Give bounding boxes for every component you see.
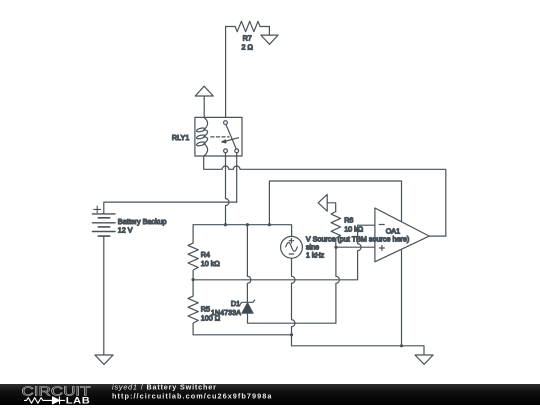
svg-text:RLY1: RLY1 [172, 133, 189, 142]
svg-text:R7: R7 [243, 34, 252, 43]
svg-text:R6: R6 [344, 216, 353, 225]
svg-text:isyed1 / Battery Switcher: isyed1 / Battery Switcher [112, 383, 217, 392]
wire plus input from R6 bottom junction [336, 246, 375, 248]
svg-text:1 kHz: 1 kHz [306, 250, 325, 259]
svg-text:R5: R5 [201, 305, 210, 314]
resistor R6 [331, 212, 364, 248]
op-amp OA1 [375, 208, 446, 262]
svg-text:10 kΩ: 10 kΩ [201, 259, 221, 268]
wire D1 anode to plus-input node [248, 247, 340, 323]
net flag at R6 top [318, 194, 336, 211]
relay RLY1 [172, 117, 242, 156]
wire top-left from R7 down to relay common [225, 27, 227, 121]
junction: riser meets ground rail [400, 344, 403, 347]
wire relay coil to op-amp output (top long wire) [204, 156, 446, 236]
junction: ground-rail riser on ground bus [268, 223, 271, 226]
ground at battery [95, 355, 113, 364]
junction: relay contact wire on ground bus [224, 223, 227, 226]
svg-text:1N4733A: 1N4733A [211, 308, 241, 317]
wire from bus up over to right and down to ground rail [269, 181, 401, 346]
footer title text [112, 383, 272, 401]
voltage source V1 sine [281, 236, 303, 258]
svg-text:2 Ω: 2 Ω [242, 43, 254, 52]
wire relay left contact down to ground bus [226, 153, 230, 225]
wire minus input: from op-amp minus down and left to R4/R5 junction [193, 225, 375, 280]
wire battery plus to relay contact [104, 202, 237, 214]
junction: R5 wire meets source minus lead [290, 333, 293, 336]
ground rail bottom right [292, 346, 425, 355]
wire battery minus down [103, 236, 105, 355]
battery Battery Backup 12V [92, 206, 166, 236]
wire source minus lead down to ground rail [292, 258, 296, 346]
svg-text:LAB: LAB [66, 395, 91, 405]
svg-text:10 kΩ: 10 kΩ [344, 224, 364, 233]
ground bus wire y=225 with corner to sine top [193, 225, 292, 237]
node B: plus input node (R6 / D1 anode) [334, 246, 337, 249]
footer bar [0, 384, 540, 405]
svg-text:12 V: 12 V [118, 225, 133, 234]
wire R5 bottom to sine bottom junction [193, 334, 291, 336]
V source labels (drawn over op-amp) [306, 234, 409, 259]
svg-text:R4: R4 [201, 250, 210, 259]
node A: R4/R5 divider junction [192, 278, 195, 281]
resistor R5 [188, 280, 221, 335]
wire relay right contact down to battery wire [236, 153, 238, 202]
ground at R7 [261, 27, 278, 45]
svg-text:http://circuitlab.com/cu26x9fb: http://circuitlab.com/cu26x9fb7998a [112, 391, 272, 400]
ground at rail [415, 355, 433, 364]
zener diode D1 [211, 225, 255, 317]
logo CIRCUIT LAB [22, 383, 91, 405]
svg-text:V Source (put TBM source here): V Source (put TBM source here) [306, 234, 409, 243]
resistor R7 [226, 21, 270, 51]
junction: D1 branch on ground bus [246, 223, 249, 226]
svg-text:D1: D1 [231, 299, 240, 308]
power flag above relay coil [195, 86, 213, 117]
resistor R4 [188, 225, 220, 280]
